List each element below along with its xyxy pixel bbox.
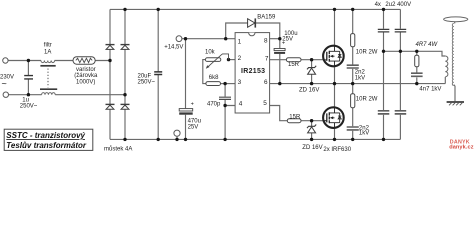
IC notch [249,33,255,36]
potentiometer 10k body [205,58,220,62]
wire lower zener branch [311,121,313,140]
MOSFET lower IRF630 [323,107,344,128]
svg-text:+14,5V: +14,5V [164,44,183,50]
capacitor 2u2 B lower plates [395,111,407,114]
potentiometer wiper arm [207,54,228,68]
choke upper winding [41,61,55,63]
wire bottom 0V rail [110,138,400,140]
svg-text:ZD 16V: ZD 16V [302,145,322,151]
wire 2u2 column A [383,9,385,139]
svg-text:4R7 4W: 4R7 4W [416,42,439,48]
wire upper zener branch [311,60,313,84]
svg-text:IR2153: IR2153 [241,68,265,75]
svg-text:varistor: varistor [76,67,96,73]
capacitor 20uF plates [154,72,162,75]
capacitor 2n2 upper plates [347,65,359,68]
svg-text:(žárovka: (žárovka [74,73,98,79]
wire +14.5V supply to pin 1 [182,38,235,40]
wire upper MOSFET source to VS [334,66,336,83]
svg-text:filtr: filtr [44,43,52,49]
svg-text:25V: 25V [188,124,199,130]
terminal mains lower [3,92,8,97]
svg-text:1: 1 [238,38,242,45]
wire 4R7 branch [416,51,418,83]
choke core bar lower [40,88,57,90]
resistor 15R lower body [287,119,301,123]
svg-text:SSTC - tranzistorový: SSTC - tranzistorový [6,131,85,140]
svg-text:470p: 470p [207,102,221,108]
wire mains lower line [9,94,126,96]
svg-text:2u2 400V: 2u2 400V [385,2,411,8]
potentiometer wiper arrowhead [206,65,210,69]
svg-text:ZD 16V: ZD 16V [299,88,319,94]
IC IR2153 body [235,33,270,113]
ground symbol [447,102,464,105]
wire caps midpoint to primary [384,51,446,56]
svg-text:6k8: 6k8 [209,75,219,81]
capacitor 2u2 B upper plates [395,29,407,32]
wire bridge column 1 [109,9,111,139]
choke lower winding [42,93,56,95]
wire pin 6 VS output rail [270,83,446,85]
title box [4,129,93,150]
wire snubber column upper [352,9,354,83]
svg-text:1kV: 1kV [355,76,365,82]
svg-text:můstek 4A: můstek 4A [104,146,132,153]
capacitor 2u2 A upper plates [378,29,390,32]
wire secondary to ground [454,85,455,102]
MOSFET upper IRF630 [323,46,344,67]
wire 20uF column [157,9,159,139]
svg-text:4n7 1kV: 4n7 1kV [419,86,441,92]
svg-text:Teslův transformátor: Teslův transformátor [6,141,87,150]
bridge diode D4 bottom-right [121,104,130,109]
svg-text:+: + [191,101,194,107]
wire 470u column [185,39,187,140]
svg-text:5: 5 [263,100,267,107]
svg-text:1A: 1A [44,50,51,56]
wire bridge column 2 [124,9,126,139]
wire primary bottom [444,77,446,84]
wire top +325V rail [110,8,400,10]
svg-text:2: 2 [238,55,242,62]
wire snubber column lower [352,84,354,140]
svg-text:2x IRF630: 2x IRF630 [323,147,351,153]
wire lower MOSFET drain [334,84,336,108]
wire pin 2 [229,59,236,61]
wire 100u column VB to VS [279,39,281,84]
wire upper MOSFET drain [334,9,336,45]
wire pin 7 gate upper [270,59,324,61]
wire pin 8 [270,38,280,40]
svg-text:6: 6 [264,79,268,86]
wire mains upper line [8,60,110,62]
wire bootstrap diode branch [226,23,280,39]
resistor 10R 2W lower body [351,94,355,108]
wire 2u2 column B [399,9,401,139]
svg-text:250V~: 250V~ [20,104,38,110]
svg-text:1000V): 1000V) [76,79,95,85]
choke core bar upper [40,65,55,67]
svg-text:250V~: 250V~ [138,79,156,85]
terminal +14.5V [176,36,182,42]
svg-text:3: 3 [238,79,242,86]
zener ZD16V lower [307,125,316,133]
svg-text:4: 4 [239,100,243,107]
svg-text:1kV: 1kV [359,130,369,136]
capacitor 4n7 plates [411,73,423,76]
terminal 0V [174,130,180,136]
svg-text:~: ~ [2,79,7,89]
svg-text:1u: 1u [22,98,29,104]
resistor 15R upper body [286,58,301,62]
varistor zigzag [76,58,92,62]
resistor 4R7 4W body [415,55,419,66]
secondary coil [452,23,454,85]
diode BA159 [248,18,256,27]
wire 1u cap column [27,61,29,95]
wire pin 5 to lower gate [270,106,324,121]
toroid topload [444,17,468,22]
resistor 6k8 body [206,82,221,86]
svg-text:8: 8 [264,38,268,45]
svg-text:15R: 15R [288,62,300,68]
choke core dashed link [47,69,49,88]
svg-text:4x: 4x [375,2,381,8]
svg-text:10k: 10k [205,50,216,56]
capacitor 470p plates [219,97,231,99]
wire lower MOSFET source [334,128,336,139]
wire 6k8 to pin 3 [221,83,236,85]
svg-text:+: + [282,40,285,46]
bridge diode D1 top-left [106,45,115,50]
capacitor 100u electrolytic plates [274,49,285,54]
varistor body [73,57,95,64]
wire 0V terminal stub [176,136,178,139]
capacitor 1u plates [24,76,33,79]
terminal mains upper [3,58,8,63]
svg-text:10R 2W: 10R 2W [356,49,378,55]
capacitor 2n2 lower plates [347,127,359,130]
svg-text:10R 2W: 10R 2W [356,96,378,102]
wire pot left to 6k8 [203,60,206,84]
wire toroid stem [454,22,456,24]
bridge diode D3 bottom-left [106,104,115,109]
zener ZD16V upper [307,66,316,75]
primary coil [445,56,448,77]
svg-text:BA159: BA159 [257,15,276,21]
wire 470p column and pin 4 [225,84,235,140]
svg-text:15R: 15R [289,114,301,120]
capacitor 2u2 A lower plates [378,111,390,114]
resistor 10R 2W upper body [351,34,355,47]
bridge diode D2 top-right [121,45,130,50]
svg-text:7: 7 [265,56,269,63]
capacitor 470u electrolytic plates [179,109,193,115]
svg-text:danyk.cz: danyk.cz [449,144,474,150]
